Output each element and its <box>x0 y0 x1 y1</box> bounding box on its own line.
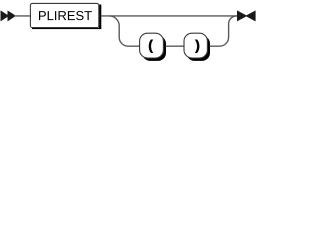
node ) <box>184 33 207 58</box>
node ( <box>140 33 164 58</box>
node ) shadow <box>187 36 211 61</box>
wire: main line from box to end arrow <box>101 15 237 17</box>
wire: start to PLIREST box <box>14 15 31 17</box>
label ( <box>149 40 153 53</box>
box PLIREST right shadow <box>99 5 101 30</box>
box PLIREST <box>30 3 98 27</box>
box PLIREST bottom shadow <box>32 28 101 29</box>
wire: between ( and ) <box>166 45 184 47</box>
background <box>0 0 260 68</box>
node ( shadow <box>142 36 166 61</box>
end arrow (two facing triangles) <box>237 10 256 21</box>
wire: branch back up to main line <box>210 16 237 46</box>
start arrow (double right-pointing triangles) <box>1 10 17 21</box>
label ) <box>195 40 199 53</box>
wire: branch down from main line to lower rail <box>109 16 140 46</box>
label PLIREST <box>39 11 92 20</box>
